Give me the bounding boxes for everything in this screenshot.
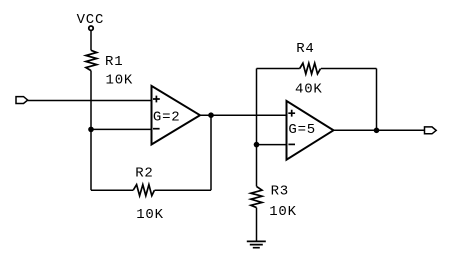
wire left segment of R2 feedback <box>91 189 133 191</box>
wire U1 output to U2 + input <box>200 114 287 116</box>
svg-text:10K: 10K <box>136 207 164 223</box>
wire junction to op-amp U1 - input <box>91 128 152 130</box>
wire VCC circle to R1 top <box>90 31 92 51</box>
wire right segment of R2 feedback <box>155 189 212 191</box>
output port <box>425 127 437 134</box>
svg-text:10K: 10K <box>106 73 134 89</box>
wire U1 output junction down to R2 <box>210 115 212 190</box>
junction node U2 output / R4 <box>374 128 380 134</box>
wire top feedback right segment <box>321 68 377 70</box>
resistor R1 (vertical zigzag) <box>86 50 97 70</box>
svg-text:R4: R4 <box>296 41 314 57</box>
wire R1 bottom down to feedback wire (crosses input wire, junction at minus node) <box>90 71 92 191</box>
resistor R2 (horizontal zigzag) <box>133 185 154 196</box>
junction node U1 output <box>208 112 214 118</box>
svg-text:10K: 10K <box>269 204 297 220</box>
VCC open-circle terminal <box>89 26 93 30</box>
svg-text:G=5: G=5 <box>288 122 316 138</box>
wire U2 output to output port <box>334 129 425 131</box>
op-amp U1 + pin mark <box>153 96 160 103</box>
resistor R4 (horizontal zigzag) <box>300 63 321 74</box>
wire feedback left vertical (R4 to minus node to R3) <box>256 69 258 187</box>
wire R3 bottom to ground <box>256 208 258 242</box>
svg-text:G=2: G=2 <box>153 110 181 126</box>
ground symbol <box>247 241 266 247</box>
op-amp U2 (G=5 triangle) <box>287 101 334 160</box>
wire minus node to U2 - input <box>257 144 287 146</box>
wire input port to op-amp U1 + input <box>28 100 152 102</box>
svg-text:40K: 40K <box>295 82 323 98</box>
op-amp U1 - pin mark <box>153 128 160 130</box>
junction node (R1 / R2 / inverting input) <box>88 127 94 133</box>
svg-text:R3: R3 <box>271 183 289 199</box>
resistor R3 (vertical zigzag) <box>251 186 262 207</box>
wire top feedback left segment (to R4) <box>257 68 300 70</box>
junction node U2 - input <box>254 142 260 148</box>
op-amp U2 + pin mark <box>288 110 295 117</box>
svg-text:R2: R2 <box>135 165 153 181</box>
svg-text:R1: R1 <box>105 54 123 70</box>
op-amp U2 - pin mark <box>288 143 295 145</box>
wire R4 right vertical down to output <box>376 69 378 131</box>
input port <box>16 97 28 104</box>
op-amp U1 (G=2 triangle) <box>152 86 201 145</box>
